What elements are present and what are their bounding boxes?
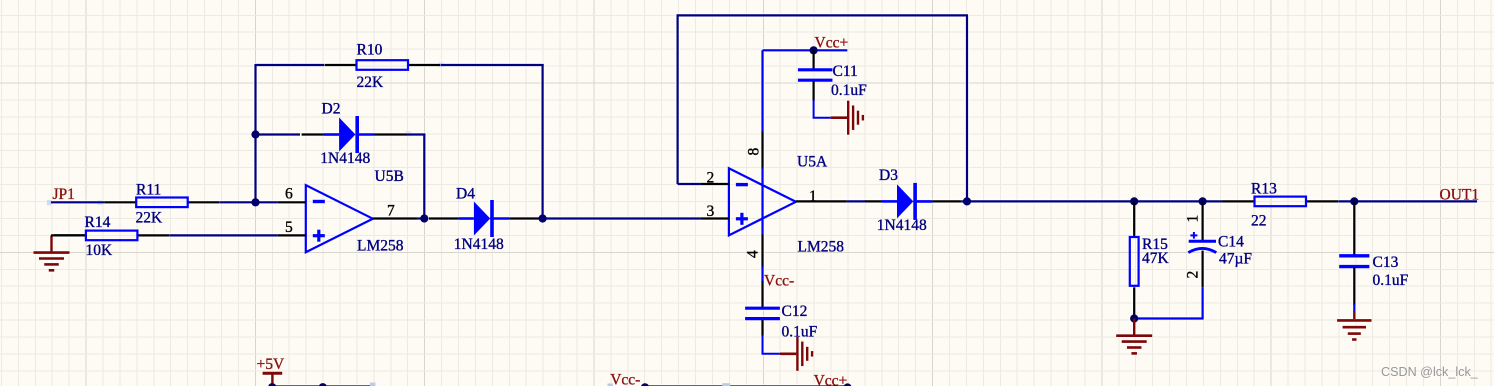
wire: pin4 to C12 (blue) (761, 266, 763, 282)
svg-text:OUT1: OUT1 (1440, 187, 1480, 204)
junction: R15/C14 ground node (1130, 314, 1138, 322)
svg-text:Vcc+: Vcc+ (815, 35, 849, 52)
power port +5V (257, 356, 285, 384)
svg-text:U5B: U5B (375, 168, 404, 185)
svg-text:R14: R14 (85, 214, 111, 231)
svg-text:LM258: LM258 (798, 239, 845, 256)
no-ERC marker (D2 node) (406, 131, 411, 136)
svg-text:+5V: +5V (257, 356, 285, 373)
svg-text:D2: D2 (322, 101, 341, 118)
wire: U5B feedback top-right segment (441, 64, 544, 66)
svg-text:1N4148: 1N4148 (320, 150, 370, 167)
wire: U5B feedback top-left segment (256, 64, 325, 66)
svg-text:D3: D3 (879, 167, 898, 184)
wire: C11 to ground (blue) (814, 100, 831, 118)
junction: R15 tap (1130, 197, 1138, 205)
svg-text:R11: R11 (136, 182, 161, 199)
wire: Vcc+ rail (blue) (763, 49, 848, 51)
junction: C14 tap (1199, 197, 1207, 205)
pin 5 (278, 234, 306, 236)
wire: bottom bus right segment (645, 385, 848, 386)
capacitor C11 (798, 50, 867, 101)
junction: bottom node b (319, 383, 327, 386)
wire: bottom bus left segment (271, 385, 374, 386)
resistor R14 (51, 214, 169, 259)
diode D2 (302, 101, 407, 168)
svg-text:CSDN @lck_lck_: CSDN @lck_lck_ (1381, 365, 1479, 379)
junction: bottom node f (843, 383, 851, 386)
svg-text:Vcc-: Vcc- (764, 273, 794, 290)
ground (R15) (1116, 319, 1152, 354)
wire: loop to pin 2 (678, 183, 701, 185)
svg-text:D4: D4 (456, 186, 475, 203)
op-amp U5B (278, 168, 417, 255)
wire: loop top horizontal (677, 14, 968, 16)
wire: JP1 input (51, 201, 104, 203)
wire: C14 bottom (blue) (1201, 287, 1203, 318)
diode D4 (429, 186, 539, 254)
pin 2 (701, 183, 729, 185)
resistor R13 (1223, 181, 1339, 230)
wire: vertical D2 to output node (423, 134, 425, 219)
svg-text:22K: 22K (136, 210, 164, 227)
wire: D3 to output bus (962, 200, 968, 202)
svg-text:3: 3 (707, 203, 715, 220)
svg-text:0.1uF: 0.1uF (1373, 272, 1409, 289)
svg-text:10K: 10K (86, 242, 114, 259)
junction: D4 out node (539, 214, 547, 222)
svg-text:R10: R10 (357, 42, 383, 59)
resistor R15 (vertical) (1130, 201, 1170, 318)
svg-text:JP1: JP1 (53, 186, 75, 203)
junction: Vcc+ / C11 (810, 46, 818, 54)
svg-text:LM258: LM258 (357, 238, 404, 255)
junction: bottom node e (641, 383, 649, 386)
svg-text:1N4148: 1N4148 (877, 217, 927, 234)
svg-text:C12: C12 (782, 303, 808, 320)
ground (R14 left) (34, 235, 70, 270)
op-amp U5A (701, 131, 847, 268)
svg-text:47K: 47K (1142, 250, 1170, 267)
wire: pin8 riser (blue) (761, 50, 763, 132)
svg-text:4: 4 (745, 250, 762, 258)
svg-text:C11: C11 (833, 63, 858, 80)
capacitor C14 (polarized) (1185, 201, 1253, 287)
wire: C13 to ground (blue) (1353, 304, 1355, 312)
svg-text:C13: C13 (1373, 254, 1399, 271)
junction: bottom node a (268, 383, 276, 386)
svg-text:R13: R13 (1251, 181, 1277, 198)
wire: pin7 to node (417, 217, 428, 219)
svg-text:2: 2 (1185, 271, 1202, 279)
junction: R11 / feedback node (251, 198, 259, 206)
svg-text:Vcc-: Vcc- (610, 371, 640, 386)
no-ERC marker (R10 pin) (439, 62, 444, 67)
no-ERC marker (370, 383, 375, 386)
svg-text:47µF: 47µF (1219, 251, 1252, 268)
pin 3 (701, 217, 729, 219)
pin 6 (278, 201, 306, 203)
junction: C13 tap (1350, 197, 1358, 205)
svg-text:7: 7 (387, 202, 395, 219)
junction: D3 out / feedback (963, 197, 971, 205)
wire: D4 to U5A pin3 (539, 217, 701, 219)
wire: left feedback vertical (254, 64, 256, 202)
no-ERC marker (R11 pin) (98, 200, 103, 205)
no-ERC marker (JP1) (47, 200, 52, 205)
pin 4 (761, 234, 763, 268)
capacitor C12 (745, 281, 818, 341)
wire: loop right vertical (966, 15, 968, 201)
capacitor C13 (1339, 201, 1408, 305)
wire: output bus (967, 200, 1223, 202)
wire: R11 to pin 6 (220, 201, 278, 203)
ground (C11) (831, 101, 863, 135)
ground (C13) (1337, 311, 1371, 340)
svg-text:U5A: U5A (797, 154, 828, 171)
wire: R15/C14 bottom link (blue) (1134, 317, 1203, 319)
svg-text:C14: C14 (1218, 234, 1244, 251)
junction: output node U5B (420, 214, 428, 222)
svg-text:1: 1 (809, 188, 817, 205)
wire: right feedback vertical (541, 64, 543, 219)
svg-text:22: 22 (1251, 213, 1267, 230)
no-ERC marker (722, 383, 730, 386)
svg-text:22K: 22K (357, 74, 385, 91)
pin 7 (373, 217, 417, 219)
wire: R13 to OUT1 (1338, 200, 1477, 202)
wire: pin1 to D3 (847, 200, 866, 202)
no-ERC marker (608, 384, 613, 386)
wire: D2 cathode to vertical (406, 133, 425, 135)
resistor R11 (104, 182, 220, 227)
wire: junction to D2 anode (256, 133, 301, 135)
wire: R14 to pin 5 (170, 234, 278, 236)
svg-text:6: 6 (285, 186, 293, 203)
wire: loop left vertical (676, 14, 678, 184)
svg-text:5: 5 (285, 219, 293, 236)
svg-text:8: 8 (746, 148, 763, 156)
diode D3 (865, 167, 961, 234)
svg-text:1N4148: 1N4148 (454, 236, 504, 253)
svg-text:Vcc+: Vcc+ (814, 372, 848, 386)
resistor R10 (325, 42, 441, 92)
junction: D2 / feedback node (251, 130, 259, 138)
ground (C12) (780, 337, 812, 371)
pin 1 (796, 200, 847, 202)
wire: C12 to ground (blue) (763, 335, 780, 354)
svg-text:0.1uF: 0.1uF (831, 82, 867, 99)
pin 8 (761, 131, 763, 169)
svg-text:0.1uF: 0.1uF (782, 324, 818, 341)
svg-text:1: 1 (1185, 215, 1202, 223)
svg-text:2: 2 (707, 170, 715, 187)
